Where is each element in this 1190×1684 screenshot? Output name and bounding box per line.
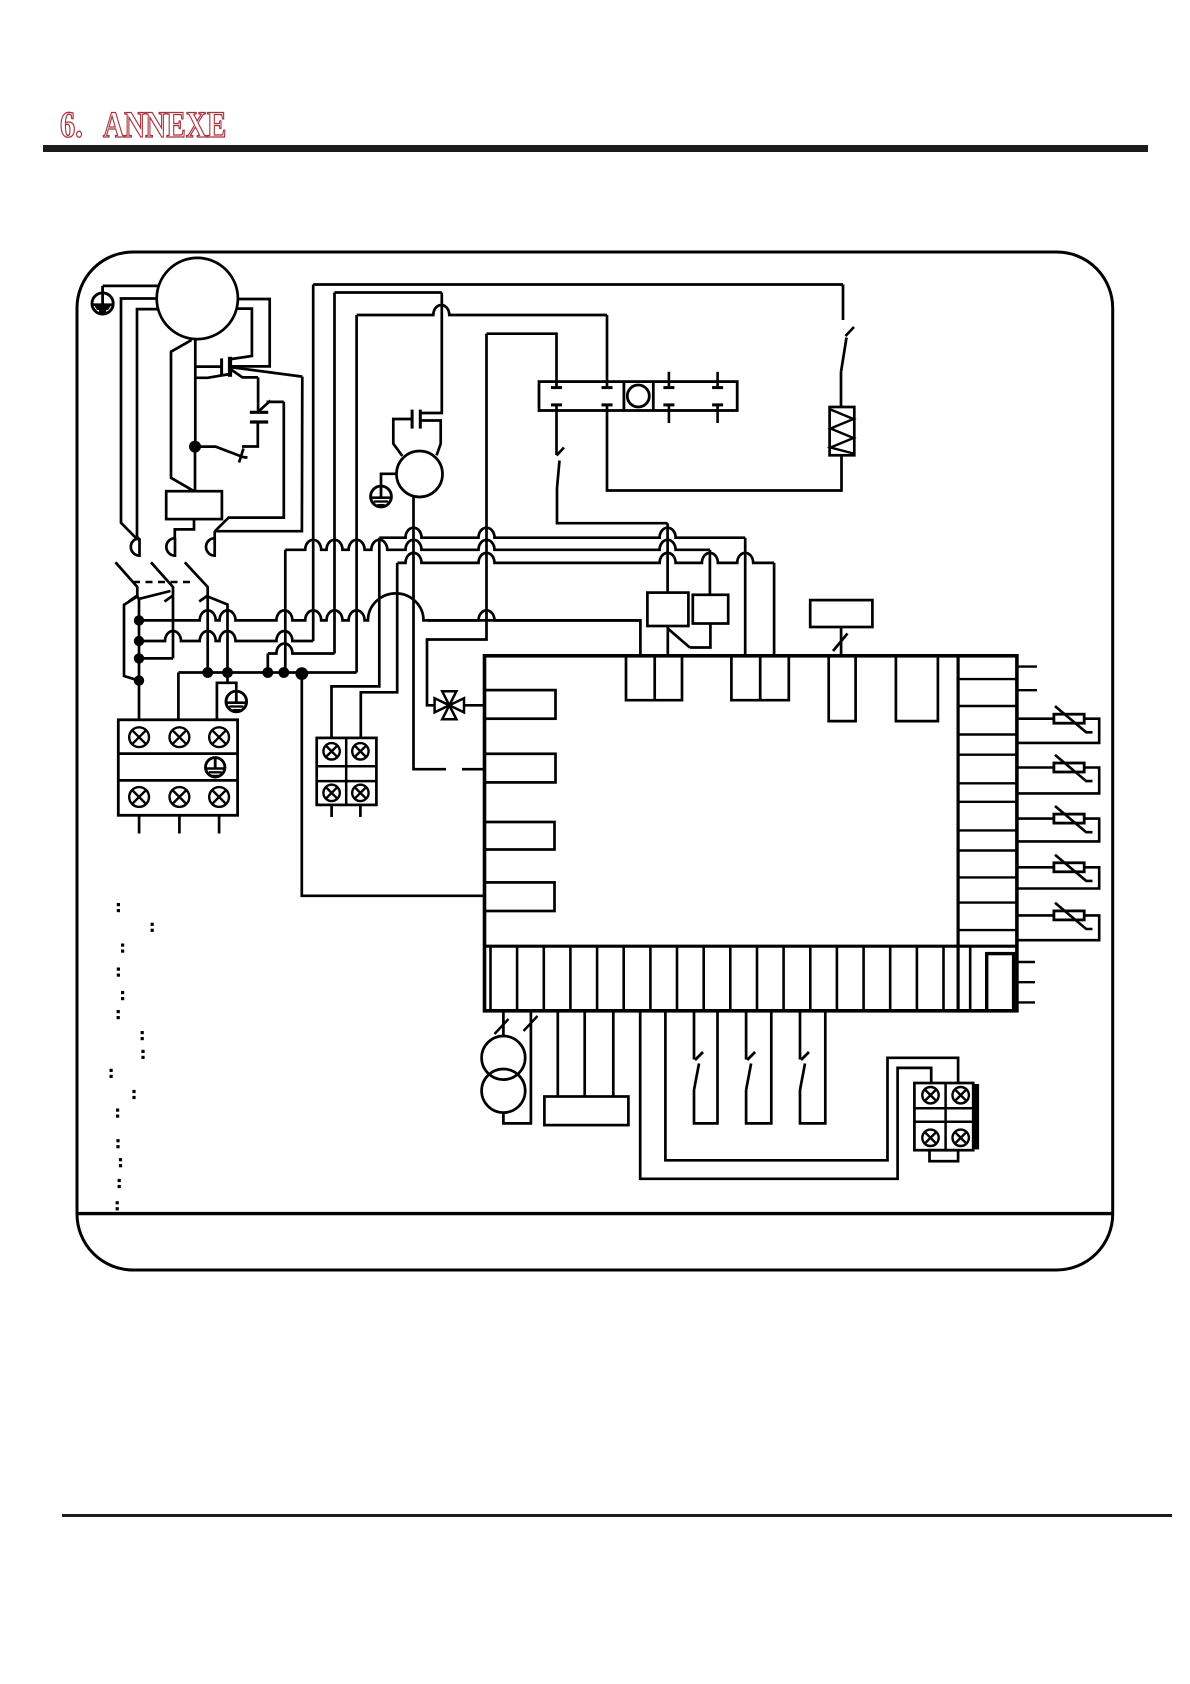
wire connector pin2 drop: [606, 315, 609, 388]
wire compressor left lower: [137, 309, 158, 540]
screw terminals of TB2: [323, 743, 339, 759]
transistor Q2: [198, 422, 258, 463]
wire pole1 down to bus: [137, 597, 139, 720]
thermistor TH5: [1017, 903, 1099, 940]
choke coil box L1: [544, 1011, 628, 1125]
wire fan cap right funnel: [420, 421, 440, 456]
fan capacitor C2: [412, 410, 420, 429]
connector pin bars x668: [663, 388, 674, 405]
thermistor TH3: [1017, 806, 1099, 841]
wire B drop to relay K2: [709, 550, 712, 595]
wire G to earth post: [217, 673, 228, 720]
section title: [60, 105, 83, 145]
wire D hop and drop: [428, 610, 640, 656]
connector pin bars x607: [602, 388, 613, 405]
wire B: [285, 540, 710, 550]
wire pole1 hairpin: [124, 597, 139, 681]
breaker pole1 terminal: [131, 538, 140, 555]
breaker pole3 contact tick: [199, 596, 208, 602]
header rule: [43, 145, 1148, 152]
diagram border frame: [77, 252, 1113, 1270]
fan terminal block TB2: [317, 738, 377, 805]
capacitor C1: [250, 377, 268, 422]
breaker pole2 blade: [151, 562, 173, 596]
breaker pole3 terminal: [206, 538, 215, 555]
junction dots on L-bus: [134, 615, 144, 625]
PCB right column rungs: [958, 679, 1017, 930]
wire connector pin1 riser: [487, 334, 557, 388]
wire valve feed lower: [427, 629, 487, 705]
wire compressor right to IGBT top: [232, 309, 252, 359]
PCB left port R3: [485, 822, 555, 850]
wire phase line 1: [312, 285, 315, 642]
wire compressor bottom to base node: [194, 340, 197, 447]
four-way valve coil 20S: [435, 691, 464, 719]
wire relay to breaker pole2: [175, 519, 194, 540]
breaker pole2 contact tick: [165, 596, 174, 602]
gate arrow of Q2: [259, 401, 284, 412]
pressure switch S3: [800, 1011, 825, 1124]
wire pole2 diagonal to bus: [139, 591, 170, 599]
footer rule: [62, 1514, 1172, 1517]
connector pin bars x556: [551, 388, 562, 405]
wire compressor right to IGBT collector: [232, 299, 270, 366]
wire compressor left upper: [121, 299, 157, 540]
wire F: [139, 657, 173, 660]
PCB column right stubs: [1017, 667, 1037, 1003]
main terminal block TB1: [118, 720, 237, 816]
wire phase line 3: [355, 315, 358, 673]
PCB top tab 1: [626, 656, 682, 700]
wire relay contact riser: [666, 523, 669, 592]
pressure switch S1: [694, 1011, 718, 1124]
wire from sensor dot to phase 2: [268, 644, 335, 654]
wire switch to relay contact: [557, 488, 668, 523]
legend colon marks: [110, 903, 154, 1210]
wire fan cap left lead: [393, 419, 412, 456]
relay K1 blade to PCB: [668, 624, 711, 657]
wire fan to PCB dashed tail: [462, 768, 485, 771]
wire pole3 drop: [206, 597, 209, 672]
wire C: [398, 553, 775, 563]
auxiliary terminal block TB3: [914, 1083, 979, 1161]
breaker pole2 terminal: [166, 538, 175, 555]
diagram floor line: [77, 1212, 1113, 1215]
heater resistor H1: [830, 407, 855, 455]
PCB top tab 3: [829, 656, 856, 721]
breaker pole3 blade: [185, 562, 208, 596]
wire fan to earth: [381, 474, 397, 486]
connector block CN1: [539, 382, 737, 411]
wire emitter node to breaker pole3: [215, 377, 302, 532]
wire valve to PCB: [464, 704, 485, 707]
thermistor TH4: [1017, 855, 1099, 889]
wire A leg to fan block: [332, 538, 380, 738]
wire phase2 top link: [335, 291, 442, 294]
breaker pole1 blade: [116, 562, 138, 596]
wire fan bottom to PCB: [414, 497, 447, 769]
wire W1 to aux block: [640, 1011, 931, 1179]
protective earth symbol E3: [371, 486, 392, 507]
connector pin bars x717: [712, 388, 723, 405]
wire top line to heater: [313, 283, 843, 286]
wire heater return: [607, 405, 842, 491]
relay contact coil K1: [647, 593, 688, 626]
connector stub pins x717: [716, 372, 719, 423]
junction dot base node: [189, 441, 201, 453]
PCB corner cell: [987, 954, 1014, 1011]
breaker pole1 contact tick: [129, 596, 138, 602]
screw terminals of TB1: [129, 727, 149, 747]
PCB top tab 4: [896, 656, 938, 721]
wire C drop to PCB tab: [773, 563, 776, 656]
wire B left drop: [284, 550, 287, 671]
breaker dashed link: [133, 581, 191, 583]
wire phase line 2: [333, 293, 336, 654]
wire PCB feed from wire G: [302, 674, 485, 896]
thermistor TH2: [1017, 755, 1099, 794]
wire W2 to aux block: [665, 1011, 958, 1161]
transformer TR1: [482, 1011, 538, 1124]
PCB left port R2: [485, 754, 556, 783]
PCB bottom terminal strip dividers: [491, 946, 971, 1011]
TB2 bottom stubs: [332, 805, 361, 817]
wire phase3 to connector: [357, 305, 607, 315]
relay RY1 coil: [166, 491, 222, 519]
fan motor MF: [397, 451, 443, 497]
wire pole3 branch: [208, 597, 228, 672]
wire valve feed drop: [485, 334, 488, 612]
wire A drop to PCB tab: [744, 538, 747, 656]
PCB left port R1: [485, 690, 556, 719]
wire base node to relay: [194, 447, 197, 492]
wire bell3 chord extension: [213, 531, 216, 540]
wire G: [178, 671, 356, 674]
junction dots on wire G: [202, 667, 213, 678]
screw terminals of TB3: [922, 1087, 938, 1103]
TB1 bottom stubs: [139, 815, 219, 833]
protective earth symbol E2: [226, 691, 247, 712]
PCB left port R4: [485, 882, 555, 911]
wire compressor funnel to phase U: [171, 340, 194, 491]
wire D to PCB: [139, 593, 640, 620]
relay contact coil K2: [693, 595, 728, 624]
connector stub pins x668: [668, 372, 671, 423]
junction dot G to PCB feed: [295, 667, 308, 680]
wire gate node to breaker pole3: [215, 402, 284, 532]
PCB main box: [485, 656, 1017, 1011]
wire sensor dot riser: [266, 654, 269, 672]
heater switch 63H: [841, 285, 854, 408]
protective earth symbol in TB1: [206, 758, 225, 777]
wire earth to compressor: [103, 285, 159, 288]
protective earth symbol E1: [92, 286, 113, 315]
defrost switch on pin1: [557, 405, 565, 488]
compressor motor MC: [157, 258, 238, 339]
thermistor TH1: [1017, 706, 1099, 743]
indicator lamp in CN1: [627, 385, 649, 407]
IGBT Q1: [195, 357, 302, 378]
wire A: [379, 528, 745, 538]
wire fan cap right top lead: [420, 293, 442, 414]
PCB top tab 2: [731, 656, 788, 700]
wire G left drop to terminal block: [177, 673, 180, 720]
relay coil K3: [810, 600, 872, 656]
earth post riser: [228, 683, 237, 691]
wire E: [139, 631, 313, 641]
wire pole2 drop to wire F: [172, 597, 175, 659]
pressure switch S2: [746, 1011, 771, 1124]
wire C-leg to fan block: [361, 563, 397, 738]
